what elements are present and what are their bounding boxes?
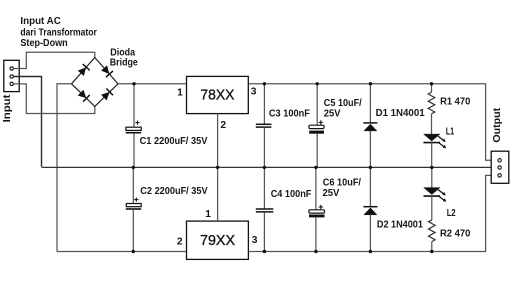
wire C5 top — [316, 84, 318, 125]
wire ground rail — [42, 166, 493, 168]
wire D2 top — [369, 167, 371, 206]
label L2 — [447, 208, 456, 219]
svg-text:C2 2200uF/ 35V: C2 2200uF/ 35V — [140, 186, 207, 197]
svg-text:1: 1 — [177, 88, 183, 99]
svg-text:2: 2 — [177, 236, 183, 247]
capacitor C4 — [256, 209, 273, 212]
wire bottom rail 79XX pin3 to output — [248, 175, 492, 251]
diode bridge BR1 — [72, 58, 119, 107]
junction dots ground rail — [132, 166, 434, 169]
wire C5 bottom — [316, 134, 318, 168]
LED L2 — [424, 188, 446, 202]
wire C4 bottom — [263, 212, 265, 251]
wire L2 to R2 — [431, 196, 433, 220]
label Input (rotated) — [1, 94, 13, 122]
label Output (rotated) — [491, 107, 503, 142]
pin label 3 of 79XX — [252, 235, 258, 246]
diode D2 — [363, 207, 377, 215]
wire C1 bottom — [133, 134, 135, 168]
svg-text:C3 100nF: C3 100nF — [269, 108, 310, 119]
wire D1 bottom — [369, 131, 371, 168]
svg-text:25V: 25V — [323, 188, 340, 199]
wire input pin1 to bridge top (AC1) — [14, 52, 95, 68]
svg-text:Input AC: Input AC — [20, 16, 61, 27]
svg-text:D2 1N4001: D2 1N4001 — [377, 220, 423, 231]
wire C2 top — [132, 167, 134, 203]
pin label 3 of 78XX — [251, 87, 257, 98]
wire R1 to L1 — [431, 114, 433, 134]
regulator U1 78XX — [187, 76, 249, 113]
svg-text:25V: 25V — [324, 108, 341, 119]
wire C3 bottom — [263, 128, 265, 168]
wire 78XX pin2 to ground — [217, 114, 219, 168]
label C6 10uF/ 25V — [323, 178, 362, 199]
capacitor C3 — [256, 124, 272, 127]
pin label 1 of 78XX — [177, 88, 183, 99]
label Input AC dari Transformator Step-Down — [20, 16, 97, 49]
svg-text:2: 2 — [220, 120, 226, 131]
capacitor C6 — [309, 205, 325, 218]
label D2 1N4001 — [377, 220, 423, 231]
wire R2 bottom — [431, 242, 433, 252]
svg-text:D1 1N4001: D1 1N4001 — [376, 108, 425, 119]
resistor R1 — [428, 92, 435, 114]
svg-text:78XX: 78XX — [200, 87, 234, 104]
junction dots bottom rail — [132, 250, 434, 253]
svg-text:R1 470: R1 470 — [440, 97, 470, 108]
svg-text:C6 10uF/: C6 10uF/ — [323, 178, 361, 189]
svg-text:79XX: 79XX — [200, 232, 235, 249]
label C5 10uF/ 25V — [324, 98, 362, 119]
resistor R2 — [429, 220, 436, 242]
wire D2 bottom — [369, 215, 371, 252]
label D1 1N4001 — [376, 108, 425, 119]
wire top rail bridge to 78XX pin1 — [118, 83, 187, 85]
svg-text:Step-Down: Step-Down — [20, 38, 67, 49]
wire C1 top — [133, 84, 135, 127]
LED L1 — [423, 134, 445, 148]
connector J2 Output — [491, 151, 509, 183]
wire input pin2 to ground rail — [14, 77, 42, 167]
svg-text:3: 3 — [251, 87, 257, 98]
svg-text:L1: L1 — [446, 127, 455, 138]
label L1 — [446, 127, 455, 138]
capacitor C1 — [126, 121, 142, 133]
svg-text:C1 2200uF/ 35V: C1 2200uF/ 35V — [140, 136, 208, 147]
junction dots top rail — [132, 82, 433, 85]
label C2 2200uF/ 35V — [140, 186, 207, 197]
wire D1 top — [369, 84, 371, 123]
wire L1 to ground — [431, 143, 433, 168]
capacitor C2 — [126, 198, 141, 210]
wire 79XX pin1 to ground — [217, 167, 219, 221]
svg-text:C5 10uF/: C5 10uF/ — [324, 98, 362, 109]
connector J1 Input — [4, 60, 19, 91]
svg-text:Input: Input — [1, 94, 13, 122]
wire C6 top — [315, 167, 317, 209]
wire top rail 78XX pin3 to output — [248, 84, 492, 161]
pin label 2 of 79XX — [177, 236, 183, 247]
wire input pin3 to bridge bottom (AC2) — [14, 84, 95, 114]
label C3 100nF — [269, 108, 310, 119]
svg-text:3: 3 — [252, 235, 258, 246]
svg-text:R2 470: R2 470 — [440, 229, 471, 240]
wire C3 top — [263, 84, 265, 124]
wire C2 bottom — [132, 210, 134, 252]
wire ground to L2 — [431, 167, 433, 187]
svg-text:L2: L2 — [447, 208, 456, 219]
wire C4 top — [263, 167, 265, 209]
wire bottom rail left to 79XX pin2 — [57, 251, 187, 253]
label Dioda Bridge — [110, 47, 138, 68]
wire R1 top — [431, 84, 433, 92]
diode D1 — [363, 123, 377, 131]
svg-text:Output: Output — [491, 107, 503, 142]
svg-text:1: 1 — [205, 209, 211, 220]
svg-text:C4 100nF: C4 100nF — [271, 189, 312, 200]
label C1 2200uF/ 35V — [140, 136, 208, 147]
label C4 100nF — [271, 189, 312, 200]
pin label 1 of 79XX — [205, 209, 211, 220]
pin label 2 of 78XX — [220, 120, 226, 131]
label R1 470 — [440, 97, 470, 108]
label R2 470 — [440, 229, 471, 240]
wire C6 bottom — [315, 217, 317, 251]
wire bridge left corner to bottom rail — [57, 84, 72, 252]
regulator U2 79XX — [187, 221, 249, 259]
svg-text:Bridge: Bridge — [110, 58, 138, 69]
capacitor C5 — [309, 120, 324, 133]
